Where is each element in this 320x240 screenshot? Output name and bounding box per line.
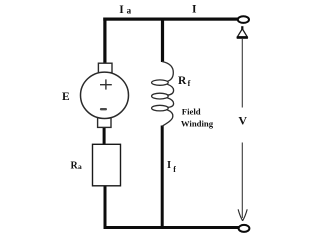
wire left Ra-to-bottom — [104, 185, 107, 229]
terminal bottom-right — [239, 225, 250, 232]
svg-text:a: a — [78, 162, 82, 171]
svg-text:E: E — [62, 91, 70, 103]
inductor Rf coil — [152, 62, 174, 127]
svg-text:Field: Field — [182, 107, 201, 117]
V measurement arrow top (hollow triangle up) — [237, 26, 248, 37]
armature E circle — [81, 72, 129, 118]
wire left vertical upper — [103, 18, 106, 64]
V measurement line lower segment — [241, 143, 243, 219]
armature brush bottom — [98, 118, 111, 128]
svg-text:V: V — [238, 113, 247, 127]
svg-text:R: R — [178, 75, 187, 87]
resistor Ra — [93, 144, 121, 186]
wire bottom horizontal — [104, 226, 240, 229]
V measurement line upper segment — [241, 39, 243, 108]
svg-text:I: I — [192, 4, 197, 16]
svg-text:f: f — [173, 165, 176, 174]
svg-text:I: I — [119, 4, 124, 16]
wire middle vertical upper — [161, 18, 164, 63]
svg-text:a: a — [127, 5, 132, 15]
armature brush top — [98, 63, 112, 72]
terminal top-right — [238, 16, 249, 23]
svg-text:Winding: Winding — [181, 119, 214, 129]
armature minus sign — [100, 108, 107, 110]
wire left armature-to-Ra — [103, 127, 106, 146]
svg-text:f: f — [188, 79, 191, 88]
wire top horizontal — [103, 18, 238, 21]
svg-text:I: I — [167, 160, 171, 171]
V measurement arrow bottom (thin barbs down) — [238, 209, 247, 221]
armature plus sign — [100, 79, 112, 89]
wire middle coil-to-bottom — [161, 126, 164, 228]
